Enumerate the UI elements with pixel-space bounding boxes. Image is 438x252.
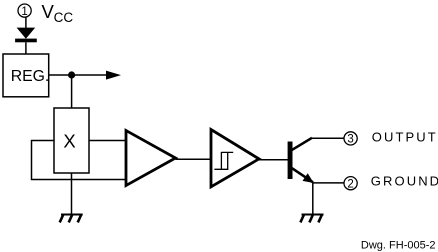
wire emitter to pin 2 xyxy=(313,182,344,184)
svg-text:Dwg. FH-005-2: Dwg. FH-005-2 xyxy=(361,240,436,252)
wire emitter to ground xyxy=(312,183,314,215)
svg-text:1: 1 xyxy=(21,6,27,18)
svg-text:2: 2 xyxy=(347,178,353,190)
wire junction to hall element xyxy=(71,75,73,108)
junction dot xyxy=(68,71,75,78)
svg-text:OUTPUT: OUTPUT xyxy=(372,129,438,144)
svg-text:REG.: REG. xyxy=(11,68,50,85)
schmitt trigger U1 xyxy=(211,130,259,187)
wire regulator output xyxy=(49,74,107,76)
wire hall right output to amp xyxy=(89,140,126,142)
ground symbol (output transistor) xyxy=(300,215,323,223)
svg-text:GROUND: GROUND xyxy=(371,173,438,188)
diode D1 (reverse-battery protection) xyxy=(15,28,37,43)
net label VCC xyxy=(42,1,74,25)
wire pin1 to diode xyxy=(25,17,27,28)
svg-text:X: X xyxy=(63,131,75,152)
wire amp to schmitt trigger xyxy=(176,158,212,160)
transistor Q1 (open-collector output) xyxy=(288,138,314,183)
wire collector to pin 3 xyxy=(312,137,344,139)
wire diode to regulator xyxy=(25,42,27,54)
regulator block REG. xyxy=(3,54,49,97)
svg-text:3: 3 xyxy=(347,134,353,146)
pin 1 terminal circle xyxy=(18,4,31,17)
wire hall left output wrap-around to amp xyxy=(32,141,127,180)
svg-text:V: V xyxy=(42,1,55,22)
svg-text:CC: CC xyxy=(54,10,74,25)
pin 2 terminal circle xyxy=(344,177,357,190)
pin 3 terminal circle xyxy=(344,132,357,145)
wire schmitt to transistor base xyxy=(259,159,288,161)
amplifier A1 xyxy=(126,131,176,186)
ground symbol (hall element) xyxy=(60,215,83,223)
hall element X xyxy=(54,108,89,173)
wire hall element to ground xyxy=(71,173,73,215)
arrow to internal supply xyxy=(106,71,121,80)
